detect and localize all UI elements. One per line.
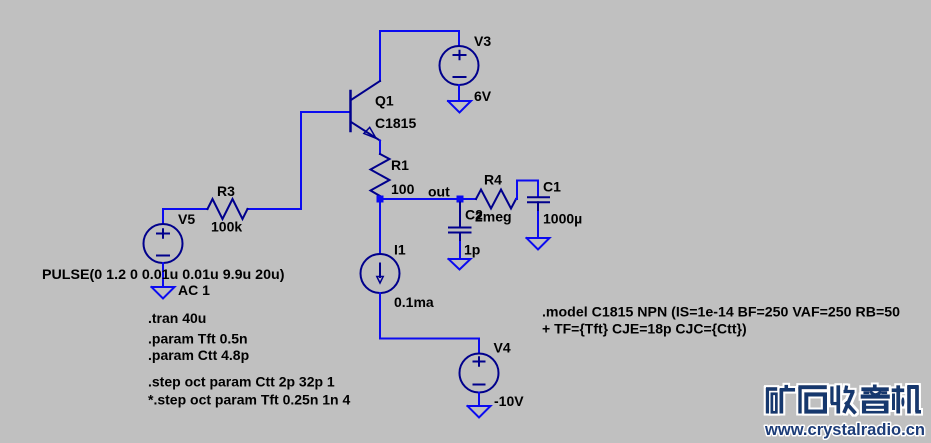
svg-text:C2: C2: [465, 207, 483, 223]
wire C1 bottom: [537, 212, 539, 238]
svg-text:www.crystalradio.cn: www.crystalradio.cn: [764, 420, 925, 439]
svg-text:.model C1815 NPN (IS=1e-14 BF=: .model C1815 NPN (IS=1e-14 BF=250 VAF=25…: [542, 304, 900, 320]
current source I1: [361, 254, 400, 293]
capacitor C1: [528, 197, 549, 212]
svg-text:0.1ma: 0.1ma: [394, 294, 434, 310]
wire V3 bottom lead: [458, 85, 460, 101]
svg-text:R4: R4: [484, 172, 502, 188]
svg-text:.tran 40u: .tran 40u: [148, 310, 206, 326]
wire I1 to V4: [380, 293, 479, 354]
wire collector top: [380, 31, 459, 81]
ground C1: [527, 238, 550, 250]
svg-text:PULSE(0 1.2 0 0.01u 0.01u 9.9u: PULSE(0 1.2 0 0.01u 0.01u 9.9u 20u): [42, 266, 285, 282]
wire V5 bottom lead: [162, 263, 164, 287]
node junction R1-out: [377, 196, 384, 203]
svg-text:I1: I1: [394, 241, 406, 257]
wire V5 top lead: [162, 209, 164, 224]
svg-text:1000µ: 1000µ: [543, 211, 582, 227]
ground C2: [449, 259, 471, 270]
svg-text:-10V: -10V: [494, 393, 524, 409]
svg-text:6V: 6V: [474, 88, 492, 104]
svg-text:AC 1: AC 1: [178, 282, 210, 298]
svg-text:100k: 100k: [211, 218, 242, 234]
svg-text:V3: V3: [474, 33, 491, 49]
capacitor C2: [449, 203, 471, 243]
node junction out-C2: [457, 196, 464, 203]
ground V3: [448, 101, 471, 113]
svg-text:.param Tft 0.5n: .param Tft 0.5n: [148, 331, 248, 347]
wire node to I1: [379, 202, 381, 254]
wire R4 left lead: [460, 198, 476, 200]
svg-text:V4: V4: [494, 340, 511, 356]
wire R4 to C1: [516, 181, 538, 200]
svg-text:.step oct param Ctt 2p 32p 1: .step oct param Ctt 2p 32p 1: [148, 374, 335, 390]
svg-text:R1: R1: [391, 157, 409, 173]
svg-text:R3: R3: [217, 183, 235, 199]
wire C2 bottom: [459, 242, 461, 259]
svg-text:Q1: Q1: [375, 93, 394, 109]
svg-text:100: 100: [391, 181, 415, 197]
resistor R4: [476, 190, 516, 209]
transistor Q1: [351, 81, 381, 141]
svg-text:C1: C1: [543, 178, 561, 194]
wire R3 left: [163, 208, 208, 210]
voltage source V4: [460, 354, 499, 393]
wire V3 top lead: [458, 31, 460, 46]
svg-text:.param Ctt 4.8p: .param Ctt 4.8p: [148, 347, 249, 363]
svg-text:V5: V5: [178, 211, 195, 227]
voltage source V5: [144, 224, 183, 263]
watermark 矿石收音机 (hand-drawn glyphs): [766, 385, 921, 414]
voltage source V3: [440, 46, 479, 85]
svg-text:out: out: [428, 184, 450, 200]
resistor R1: [371, 154, 390, 199]
svg-text:C1815: C1815: [375, 115, 416, 131]
wire V4 bottom lead: [478, 393, 480, 407]
ground V4: [468, 406, 491, 418]
ground V5: [152, 287, 175, 299]
wire emitter: [379, 141, 381, 155]
wire out: [380, 198, 460, 200]
resistor R3: [208, 199, 248, 219]
svg-text:1p: 1p: [464, 242, 480, 258]
svg-text:*.step oct param Tft 0.25n 1n: *.step oct param Tft 0.25n 1n 4: [148, 392, 350, 408]
svg-text:+ TF={Tft} CJE=18p CJC={Ctt}): + TF={Tft} CJE=18p CJC={Ctt}): [542, 321, 747, 337]
wire base: [248, 112, 351, 209]
